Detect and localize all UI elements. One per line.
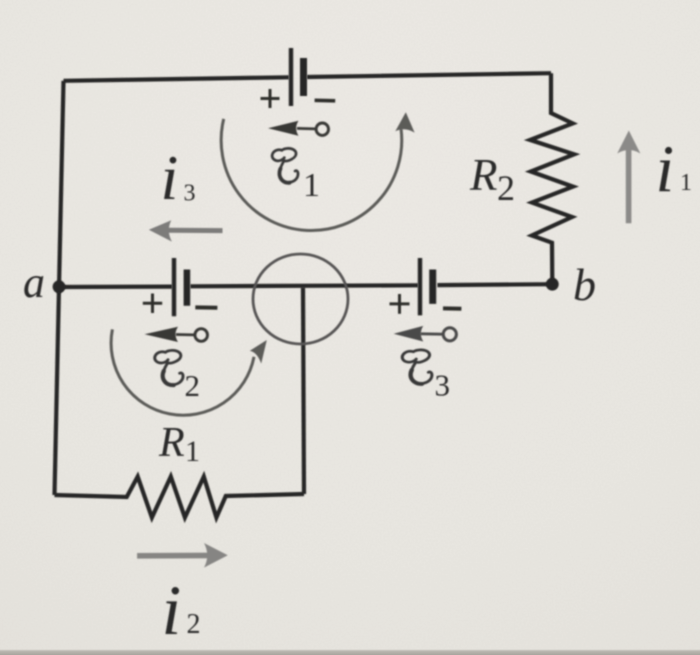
svg-text:2: 2 (187, 609, 201, 640)
svg-text:b: b (573, 259, 596, 310)
svg-text:3: 3 (184, 181, 196, 207)
svg-text:R: R (469, 150, 498, 200)
svg-text:1: 1 (303, 167, 320, 204)
svg-text:R: R (158, 420, 185, 466)
svg-text:1: 1 (185, 435, 200, 468)
svg-text:2: 2 (497, 168, 515, 208)
svg-text:i: i (162, 572, 182, 650)
svg-text:2: 2 (185, 368, 201, 403)
svg-text:i: i (161, 142, 179, 213)
svg-text:i: i (656, 132, 675, 206)
svg-text:1: 1 (680, 170, 692, 196)
svg-text:a: a (23, 258, 45, 307)
svg-text:3: 3 (435, 368, 451, 403)
